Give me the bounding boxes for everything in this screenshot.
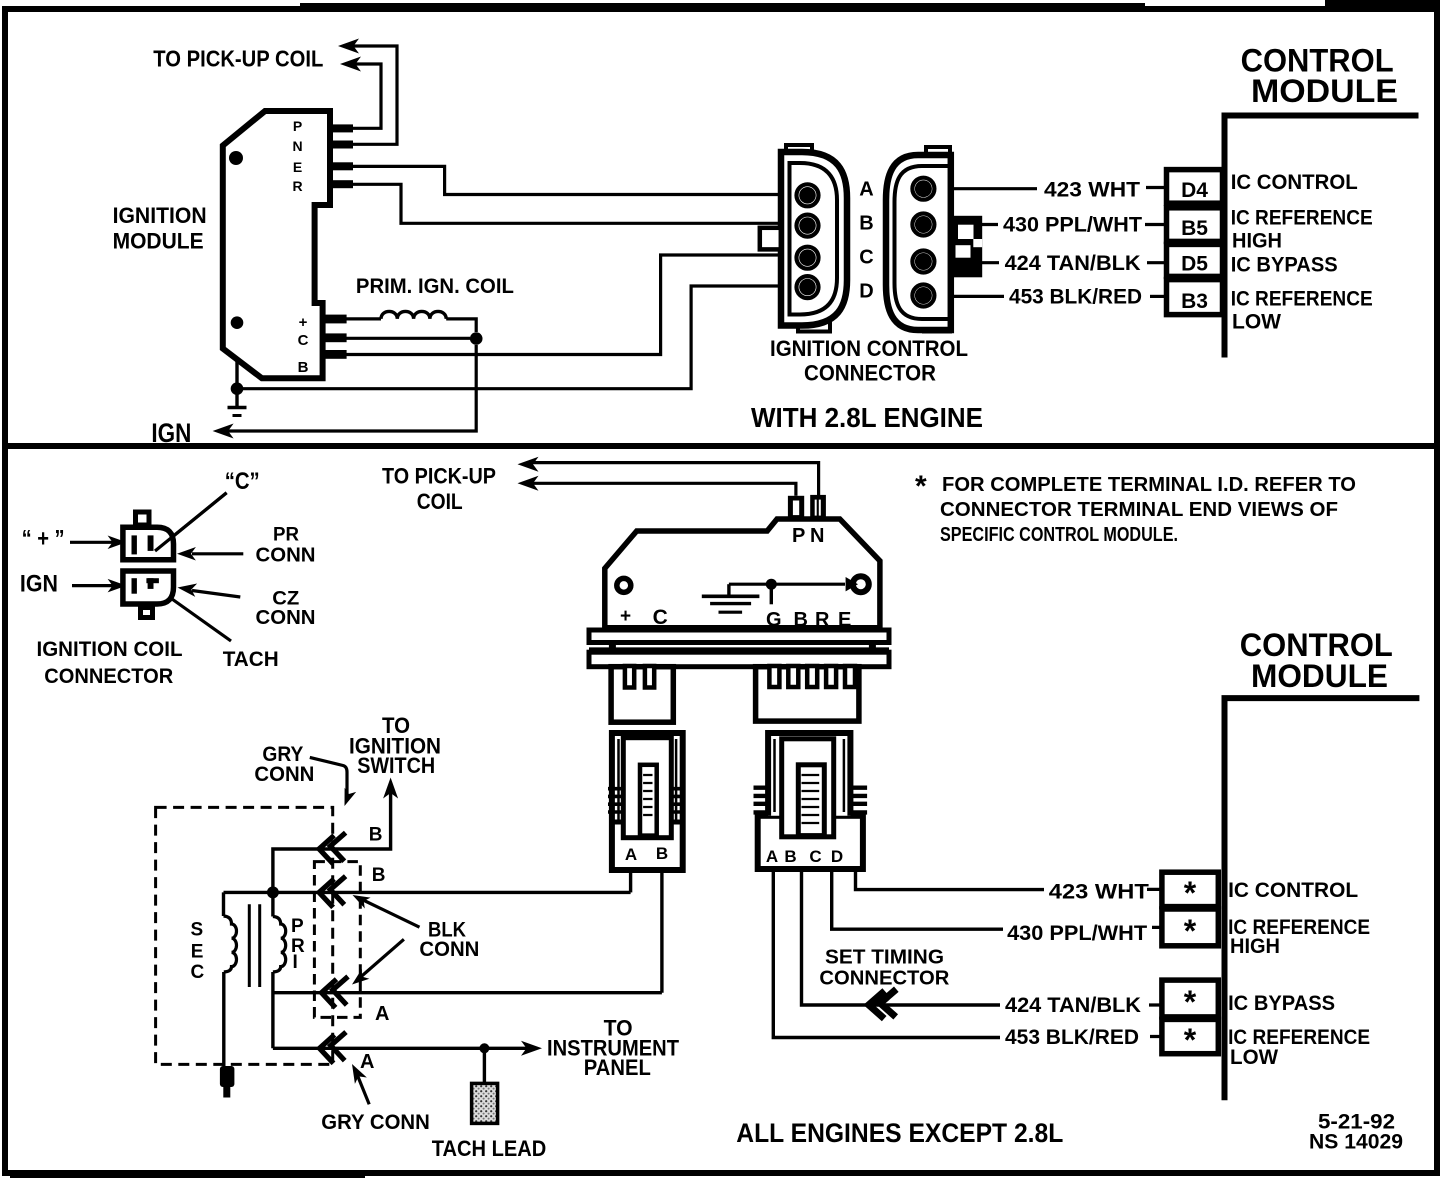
svg-text:HIGH: HIGH: [1232, 230, 1282, 253]
svg-text:B: B: [298, 359, 309, 376]
svg-text:TO PICK-UP COIL: TO PICK-UP COIL: [153, 46, 323, 72]
svg-text:IGNITION CONTROL: IGNITION CONTROL: [770, 336, 968, 361]
svg-text:453 BLK/RED: 453 BLK/RED: [1009, 286, 1142, 309]
svg-text:+: +: [299, 314, 308, 331]
svg-text:CONN: CONN: [254, 763, 314, 786]
svg-text:E: E: [838, 609, 851, 631]
svg-text:R: R: [292, 178, 302, 194]
svg-text:D: D: [831, 847, 843, 866]
svg-text:*: *: [1184, 875, 1197, 911]
svg-text:“ + ”: “ + ”: [22, 526, 65, 553]
svg-text:C: C: [191, 962, 205, 983]
svg-text:A: A: [360, 1051, 374, 1073]
svg-text:A: A: [625, 845, 637, 864]
svg-text:PANEL: PANEL: [584, 1055, 651, 1080]
svg-text:423 WHT: 423 WHT: [1049, 881, 1149, 904]
svg-text:“C”: “C”: [225, 468, 260, 495]
svg-text:SWITCH: SWITCH: [357, 753, 435, 778]
svg-text:*: *: [1184, 1022, 1197, 1058]
svg-text:B: B: [794, 609, 808, 631]
svg-text:P: P: [291, 916, 304, 937]
svg-text:IGN: IGN: [20, 571, 58, 598]
svg-text:G: G: [766, 609, 782, 631]
svg-text:B: B: [859, 213, 873, 235]
svg-text:424 TAN/BLK: 424 TAN/BLK: [1005, 994, 1141, 1017]
svg-text:ALL ENGINES EXCEPT 2.8L: ALL ENGINES EXCEPT 2.8L: [736, 1118, 1063, 1148]
svg-text:D4: D4: [1181, 179, 1208, 202]
svg-text:CONNECTOR: CONNECTOR: [44, 665, 173, 688]
svg-text:P: P: [293, 118, 302, 134]
svg-text:B: B: [369, 825, 383, 846]
svg-text:CONN: CONN: [419, 938, 479, 961]
svg-text:+: +: [620, 606, 631, 627]
svg-text:C: C: [859, 247, 873, 269]
svg-text:IGNITION COIL: IGNITION COIL: [37, 638, 183, 661]
svg-text:N: N: [810, 525, 824, 547]
svg-text:GRY CONN: GRY CONN: [321, 1111, 430, 1134]
svg-text:IC BYPASS: IC BYPASS: [1231, 254, 1338, 277]
svg-text:424 TAN/BLK: 424 TAN/BLK: [1005, 252, 1141, 275]
svg-text:A: A: [375, 1003, 389, 1025]
svg-text:CONNECTOR TERMINAL END VIEWS O: CONNECTOR TERMINAL END VIEWS OF: [940, 499, 1338, 521]
svg-text:C: C: [298, 332, 309, 349]
svg-text:S: S: [191, 920, 204, 941]
svg-text:MODULE: MODULE: [1251, 73, 1398, 109]
svg-text:D: D: [859, 281, 873, 303]
svg-text:MODULE: MODULE: [113, 229, 204, 254]
svg-text:CONNECTOR: CONNECTOR: [804, 361, 936, 386]
svg-text:B: B: [656, 844, 668, 863]
svg-text:LOW: LOW: [1230, 1046, 1278, 1069]
svg-text:SET TIMING: SET TIMING: [825, 947, 944, 969]
svg-text:A: A: [859, 179, 873, 201]
svg-text:A: A: [766, 847, 778, 866]
svg-text:PRIM. IGN. COIL: PRIM. IGN. COIL: [356, 275, 514, 298]
svg-text:LOW: LOW: [1232, 311, 1281, 334]
svg-text:430 PPL/WHT: 430 PPL/WHT: [1007, 922, 1147, 945]
svg-text:IC CONTROL: IC CONTROL: [1228, 879, 1358, 902]
svg-text:R: R: [815, 609, 830, 631]
svg-text:PR: PR: [273, 525, 299, 546]
svg-text:IGN: IGN: [151, 418, 191, 448]
svg-text:B: B: [372, 865, 386, 886]
svg-text:CONNECTOR: CONNECTOR: [819, 968, 950, 990]
svg-text:C: C: [653, 606, 668, 629]
svg-text:IC CONTROL: IC CONTROL: [1231, 171, 1358, 194]
svg-text:IC REFERENCE: IC REFERENCE: [1231, 207, 1373, 230]
svg-text:SPECIFIC CONTROL MODULE.: SPECIFIC CONTROL MODULE.: [940, 524, 1178, 546]
svg-text:FOR COMPLETE TERMINAL I.D. REF: FOR COMPLETE TERMINAL I.D. REFER TO: [942, 474, 1356, 496]
svg-text:N: N: [292, 138, 302, 154]
svg-text:MODULE: MODULE: [1251, 658, 1388, 694]
svg-text:I: I: [293, 952, 298, 973]
svg-text:COIL: COIL: [417, 489, 463, 514]
svg-text:WITH 2.8L ENGINE: WITH 2.8L ENGINE: [751, 402, 983, 433]
svg-text:C: C: [809, 847, 821, 866]
svg-text:TACH LEAD: TACH LEAD: [432, 1136, 547, 1161]
svg-text:NS 14029: NS 14029: [1309, 1131, 1403, 1154]
svg-text:CONN: CONN: [256, 607, 316, 629]
svg-text:IC BYPASS: IC BYPASS: [1228, 992, 1335, 1015]
svg-text:430 PPL/WHT: 430 PPL/WHT: [1003, 214, 1142, 237]
svg-text:423 WHT: 423 WHT: [1044, 179, 1140, 202]
svg-text:*: *: [915, 470, 927, 503]
svg-text:HIGH: HIGH: [1230, 935, 1280, 958]
svg-text:*: *: [1184, 984, 1197, 1020]
svg-text:TACH: TACH: [223, 648, 279, 671]
svg-text:E: E: [191, 942, 204, 963]
svg-text:B: B: [784, 847, 796, 866]
svg-text:CONN: CONN: [256, 545, 316, 567]
svg-text:453 BLK/RED: 453 BLK/RED: [1005, 1026, 1139, 1049]
svg-text:TO PICK-UP: TO PICK-UP: [382, 464, 496, 489]
svg-text:P: P: [792, 525, 805, 547]
svg-text:IC REFERENCE: IC REFERENCE: [1231, 288, 1373, 311]
svg-text:E: E: [293, 159, 302, 175]
svg-text:*: *: [1184, 913, 1197, 949]
svg-text:IGNITION: IGNITION: [113, 203, 207, 228]
svg-text:D5: D5: [1181, 253, 1208, 276]
svg-text:B3: B3: [1181, 290, 1208, 313]
svg-text:B5: B5: [1181, 217, 1208, 240]
